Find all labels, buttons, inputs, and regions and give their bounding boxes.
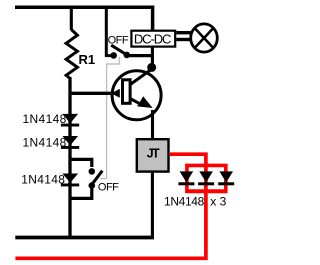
diode D3 1N4148	[61, 174, 79, 187]
lamp L1	[191, 24, 218, 52]
svg-text:DC-DC: DC-DC	[134, 31, 171, 46]
wire top switch feed	[106, 7, 112, 55]
switch S1 top OFF: lever (open)	[111, 45, 127, 55]
svg-text:1N4148: 1N4148	[164, 195, 205, 209]
diode D5 1N4148	[198, 171, 214, 185]
diode D4 1N4148	[178, 171, 194, 185]
JT module U2	[137, 139, 169, 171]
gray wire from top switch to bottom switch	[100, 57, 119, 179]
switch S2 bottom OFF: bottom contact dot	[89, 182, 96, 189]
transistor Q1	[111, 70, 161, 120]
wire bottom rail	[15, 236, 154, 240]
wire DC-DC bottom stub to collector	[151, 47, 154, 68]
DC-DC converter module U1	[131, 31, 175, 47]
red wire diode bank bottom bus	[185, 189, 228, 193]
diode D2 1N4148	[61, 136, 79, 149]
red wire diode bank top bus	[187, 165, 226, 189]
wire switch S2 top branch	[70, 159, 92, 167]
wire left column vertical	[68, 77, 71, 238]
wire DC-DC to lamp (plug)	[176, 33, 191, 40]
diode D1 1N4148	[61, 114, 79, 127]
wire JT bottom to ground rail	[151, 172, 154, 238]
svg-text:1N4148: 1N4148	[21, 173, 65, 187]
diode D6 1N4148	[218, 171, 234, 185]
svg-text:1N4148: 1N4148	[23, 135, 67, 149]
switch S2 bottom OFF: top contact dot	[89, 168, 96, 175]
svg-text:JT: JT	[147, 147, 160, 161]
svg-text:x 3: x 3	[210, 195, 226, 209]
wire switch to collector node	[127, 54, 153, 57]
svg-text:1N4148: 1N4148	[23, 112, 67, 126]
switch S1 top OFF: right contact dot	[124, 52, 131, 59]
wire switch S2 bottom branch	[70, 187, 92, 198]
node collector junction dot	[147, 63, 156, 72]
wire top rail	[15, 7, 153, 30]
resistor R1	[66, 30, 77, 79]
red wire JT output feed	[15, 154, 206, 258]
svg-text:OFF: OFF	[108, 34, 129, 46]
svg-text:OFF: OFF	[98, 181, 119, 193]
wire base (to transistor)	[69, 92, 113, 95]
switch S2 bottom OFF: lever (open)	[92, 171, 102, 185]
svg-text:R1: R1	[79, 52, 96, 67]
switch S1 top OFF: left contact dot	[110, 52, 117, 59]
wire emitter to JT	[151, 110, 154, 139]
wire R1 top stub	[70, 7, 73, 30]
